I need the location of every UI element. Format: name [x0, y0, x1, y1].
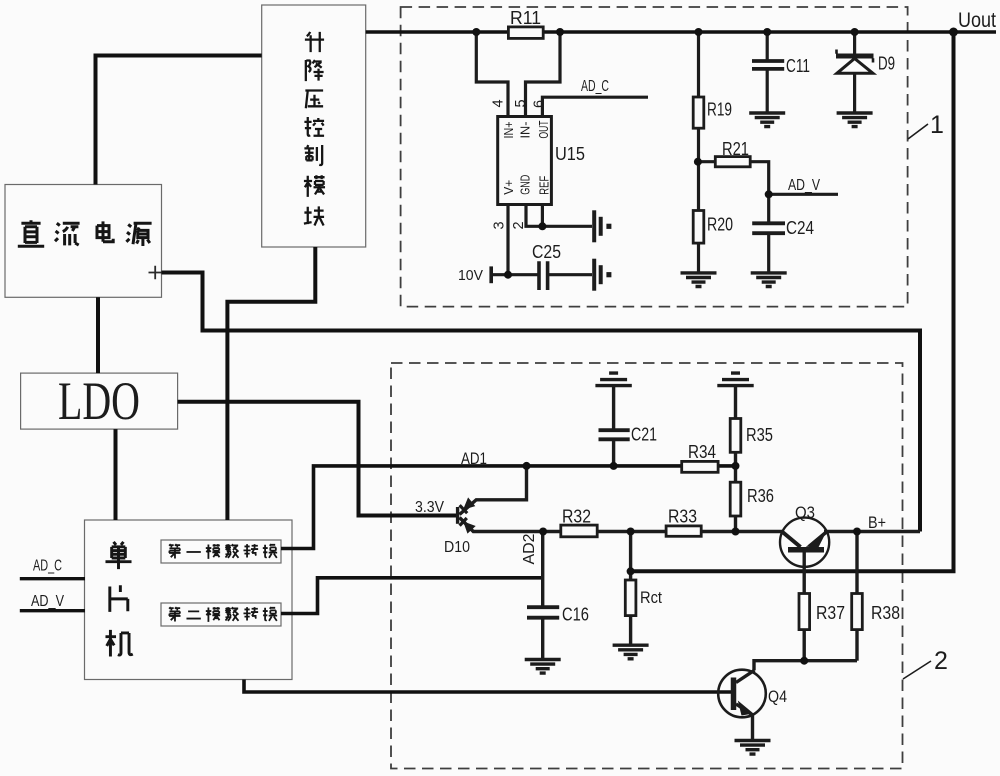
wire: R35 to R36 node: [734, 452, 737, 482]
wire: battery + to B+ node (long run): [162, 273, 921, 532]
resistor R20: [693, 211, 733, 244]
wire: AD_V line: [769, 193, 838, 196]
svg-text:REF: REF: [538, 175, 552, 194]
resistor Rct: [625, 580, 662, 616]
text 直流电源: [18, 220, 152, 246]
node dot rail-R11 right: [556, 28, 564, 36]
node dot R37-bottom: [800, 657, 808, 665]
svg-text:Q3: Q3: [795, 503, 815, 522]
node dot Rct-sense: [627, 567, 635, 575]
svg-text:AD_C: AD_C: [581, 78, 609, 95]
wire: R36 to base line: [734, 516, 737, 532]
wire: node A to R21: [699, 160, 716, 163]
zener diode D9: [836, 50, 895, 74]
node dot AD2-R32: [539, 528, 547, 536]
wire: rail to U15 pin5: [526, 32, 561, 117]
svg-text:V+: V+: [502, 180, 516, 195]
node dot AD1-C21: [610, 462, 618, 470]
resistor R37: [799, 594, 845, 630]
10V terminal bar: [489, 266, 493, 283]
svg-text:R34: R34: [688, 442, 716, 462]
svg-text:D10: D10: [444, 539, 470, 556]
wire: LDO right to 3.3V node: [178, 402, 456, 516]
ground for Q4: [735, 741, 771, 755]
svg-text:R20: R20: [707, 215, 733, 235]
svg-text:4: 4: [491, 99, 507, 107]
svg-text:AD_V: AD_V: [31, 593, 64, 610]
svg-text:R36: R36: [747, 486, 774, 506]
node dot AD1-D10: [523, 462, 531, 470]
node dot rail-Uout: [949, 28, 958, 37]
wire: rail to D9: [853, 32, 856, 54]
leader line for label 1: [908, 124, 928, 139]
ground for C24: [751, 273, 787, 287]
ground for Rct: [613, 645, 649, 659]
capacitor C25: [532, 242, 561, 290]
svg-text:6: 6: [532, 100, 548, 108]
svg-text:R38: R38: [871, 603, 900, 623]
svg-text:5: 5: [513, 99, 529, 107]
capacitor C16: [527, 605, 589, 625]
svg-text:AD_V: AD_V: [788, 177, 820, 194]
ground (inverted) above C21: [595, 373, 631, 386]
node dot R19/R20/R21: [694, 158, 702, 166]
resistor R33: [666, 507, 701, 537]
text 第一模数转换: [169, 544, 277, 559]
block: buck-boost control module 升降压控制模块: [262, 5, 366, 247]
wire: AD_V node to C24: [767, 194, 770, 223]
node dot R32-R33 sense: [627, 528, 635, 536]
node dot rail-C11: [763, 28, 771, 36]
svg-text:Uout: Uout: [958, 9, 996, 32]
svg-text:C21: C21: [631, 425, 657, 445]
wire: 10V rail to C25: [491, 273, 539, 276]
svg-text:AD2: AD2: [521, 533, 538, 564]
svg-text:IN+: IN+: [502, 122, 516, 139]
node dot R34-R35-R36: [732, 462, 740, 470]
svg-text:C11: C11: [786, 56, 810, 76]
svg-text:AD_C: AD_C: [33, 558, 62, 575]
svg-text:Rct: Rct: [640, 588, 662, 607]
ground (inverted) above R35: [717, 373, 753, 386]
resistor R19: [693, 97, 732, 128]
svg-text:R35: R35: [746, 425, 773, 445]
wire: AD2 node down through C16: [541, 532, 544, 608]
node dot rail-D9: [851, 28, 859, 36]
block: DC power source 直流电源: [5, 185, 162, 298]
capacitor C11: [752, 56, 810, 76]
text 升降压控制模块: [304, 32, 325, 226]
node dot AD_V: [765, 190, 773, 198]
wire: U15 V+ pin3 down to 10V rail: [506, 205, 509, 275]
svg-text:AD1: AD1: [461, 449, 487, 468]
diode D10 lower (to AD2 branch): [460, 518, 544, 533]
wire: R21 to AD_V node: [750, 162, 769, 195]
node dot rail-R11 left: [472, 28, 480, 36]
wire: U15 GND pin2 to ground: [526, 205, 592, 227]
wire: buck-boost bottom jog down to MCU top: [227, 247, 315, 520]
wire: R32 R33 base line: [543, 530, 783, 533]
wire: C11 to ground: [766, 69, 769, 113]
svg-text:3.3V: 3.3V: [415, 499, 444, 516]
ground for R20: [681, 273, 717, 287]
resistor R21: [715, 139, 750, 167]
node dot B+-R38: [853, 528, 861, 536]
svg-text:Q4: Q4: [768, 687, 787, 706]
wire: C24 to ground: [767, 233, 770, 273]
resistor R32: [561, 507, 597, 537]
wire: bottom line to Q4 collector: [754, 661, 857, 671]
ground (rotated) for C25: [594, 259, 611, 291]
svg-text:D9: D9: [878, 54, 895, 74]
ground (rotated) for GND/REF: [594, 210, 611, 242]
transistor Q3: [780, 503, 829, 567]
ground for C16: [525, 660, 561, 674]
block: second ADC 第二模数转换: [161, 603, 281, 626]
wire: MCU bottom to Q4 base: [244, 680, 731, 693]
svg-text:U15: U15: [555, 144, 585, 164]
text 单片机: [105, 542, 132, 657]
block: first ADC 第一模数转换: [161, 540, 281, 563]
wire: R32/R33 node to sense line: [629, 532, 632, 581]
wire: top output rail: [366, 30, 996, 33]
svg-text:R33: R33: [668, 507, 697, 527]
ground for D9: [837, 113, 873, 127]
wire: C25 to ground: [548, 273, 592, 276]
wire: AD_C stub line left: [20, 577, 85, 580]
svg-text:R19: R19: [707, 100, 732, 120]
wire: DC source top to buck-boost module left: [96, 56, 262, 185]
svg-text:C16: C16: [562, 605, 589, 625]
op-amp U15: [498, 117, 585, 205]
wire: rail to C11: [766, 32, 769, 61]
resistor R34: [682, 442, 718, 472]
svg-text:LDO: LDO: [58, 371, 140, 431]
resistor R36: [730, 482, 774, 516]
wire: U15 REF pin down: [541, 205, 544, 227]
svg-text:R32: R32: [562, 507, 591, 527]
wire: AD2 from second ADC: [281, 578, 543, 614]
node dot R36-R33: [732, 528, 740, 536]
svg-text:2: 2: [934, 647, 948, 675]
ground for C11: [749, 113, 785, 127]
wire: R20 to ground: [697, 243, 700, 273]
wire: Rct to ground: [629, 616, 632, 646]
transistor Q4: [718, 670, 787, 718]
wire: rail to U15 pin4: [476, 32, 508, 117]
wire: Q3 emitter to B+: [824, 530, 920, 534]
wire: Uout vertical and lower return to Rct: [631, 32, 954, 571]
svg-text:R11: R11: [510, 8, 541, 28]
svg-text:GND: GND: [519, 175, 533, 195]
resistor R38: [852, 594, 900, 630]
block: MCU 单片机: [85, 520, 293, 680]
dashed box 1: [401, 7, 908, 307]
resistor R35: [730, 419, 773, 453]
wire: C16 to ground: [541, 618, 544, 660]
svg-text:IN-: IN-: [519, 122, 533, 139]
capacitor C21: [599, 425, 658, 445]
node dot rail-R19: [695, 28, 703, 36]
resistor R11: [508, 8, 543, 38]
diode D10 upper (to AD1 branch): [460, 466, 527, 515]
wire: R37 to bottom line: [803, 630, 806, 661]
dashed box 2: [391, 363, 903, 769]
wire: rail to R19: [697, 32, 700, 97]
wire: Q3 base down to R37: [803, 552, 806, 594]
svg-text:10V: 10V: [458, 267, 483, 284]
dual diode D10 common cathode bar: [456, 507, 459, 524]
svg-text:C25: C25: [532, 242, 561, 262]
svg-text:R37: R37: [816, 603, 845, 623]
wire: R38 to bottom line: [855, 630, 858, 661]
wire: D9 to ground: [853, 73, 856, 113]
node dot V+ 10V junction: [504, 271, 512, 279]
svg-text:B+: B+: [868, 513, 886, 532]
wire: ground to R35: [734, 386, 737, 419]
svg-text:C24: C24: [786, 218, 814, 238]
text 第二模数转换: [169, 607, 277, 622]
wire: Q4 emitter to ground: [751, 715, 754, 741]
plus terminal label: [149, 266, 163, 280]
wire: AD_V stub line left: [20, 609, 85, 612]
node dot REF junction: [538, 222, 546, 230]
wire: R38 from B+ down: [855, 532, 858, 594]
block: LDO: [21, 371, 178, 431]
wire: DC source bottom to LDO top: [96, 297, 100, 373]
svg-text:1: 1: [930, 111, 944, 139]
wire: LDO bottom to MCU top: [114, 429, 118, 520]
wire: C21 to AD1 line: [612, 439, 615, 466]
svg-text:3: 3: [492, 221, 508, 229]
wire: R19 to node A: [697, 128, 700, 210]
wire: U15 pin6 OUT to AD_C: [542, 97, 648, 116]
capacitor C24: [752, 218, 814, 238]
wire: AD1 from first ADC: [281, 466, 736, 549]
wire: ground to C21: [612, 386, 615, 430]
leader line for label 2: [903, 661, 931, 679]
svg-text:OUT: OUT: [537, 120, 551, 138]
svg-text:R21: R21: [722, 139, 749, 159]
